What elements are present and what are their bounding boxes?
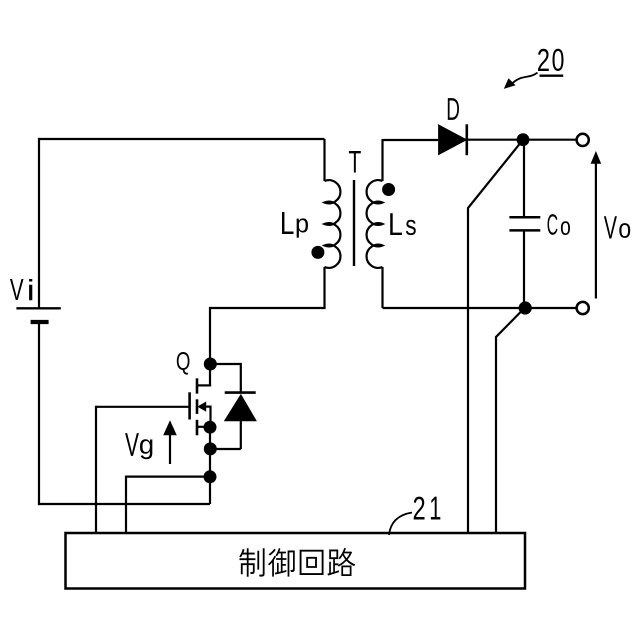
leader 21 curve	[389, 513, 412, 536]
leader 20 curve	[512, 73, 538, 84]
arrow Vg line	[169, 434, 171, 464]
label Lp	[282, 212, 308, 238]
polarity dot Lp	[311, 246, 324, 259]
label 20	[538, 49, 564, 71]
wire Co bottom down	[523, 230, 525, 308]
transistor Q source stub	[197, 426, 210, 428]
transistor Q drain stub	[197, 384, 211, 386]
arrow Vg head	[163, 420, 177, 435]
label Vg	[125, 433, 152, 459]
polarity dot Ls	[382, 183, 395, 196]
node drain	[204, 358, 217, 371]
wire node to positive terminal	[523, 139, 576, 141]
wire left vertical from top rail to battery	[38, 138, 40, 308]
wire feedback from bottom node diagonal	[496, 308, 525, 533]
wire Lp bottom down	[323, 267, 325, 308]
node body return	[204, 442, 217, 455]
wire feedback from top node diagonal	[468, 140, 523, 533]
wire bottom output rail	[383, 307, 577, 309]
kanji gyo of 制御回路	[268, 548, 295, 576]
label T	[349, 151, 361, 173]
wire node down to Co	[523, 140, 525, 218]
kanji ro of 制御回路	[327, 548, 355, 576]
wire battery negative down	[38, 324, 40, 505]
battery Vi positive plate	[16, 307, 60, 309]
transistor Q body arrowhead	[197, 402, 206, 412]
label Vo	[604, 216, 630, 238]
terminal output positive	[577, 134, 589, 146]
inductor Ls winding	[367, 180, 383, 268]
capacitor Co bottom plate	[509, 229, 540, 232]
kanji kai of 制御回路	[300, 550, 324, 575]
wire Ls top to rail	[381, 139, 383, 181]
label Vi	[10, 279, 32, 300]
transistor Q gate bar	[188, 392, 191, 419]
arrow Vo head	[591, 151, 602, 164]
wire drain node to stub	[209, 364, 211, 387]
wire Ls top to diode anode	[383, 139, 439, 141]
label Q	[177, 352, 190, 375]
transistor Q body stub	[204, 407, 211, 427]
label Ls	[390, 213, 416, 235]
transistor Q channel drain segment	[196, 378, 199, 393]
label 21	[414, 497, 441, 520]
wire gate down to control box	[95, 406, 97, 533]
capacitor Co top plate	[509, 216, 540, 219]
terminal output negative	[577, 302, 589, 314]
wire bottom return to MOSFET source	[38, 503, 210, 505]
wire drain vertical	[209, 307, 211, 364]
diode D body	[439, 125, 467, 155]
transistor Q channel body segment	[196, 399, 199, 414]
wire top rail	[39, 138, 325, 140]
control box 21	[66, 533, 526, 589]
wire body diode return	[210, 448, 241, 450]
node source return	[204, 470, 217, 483]
wire gate horizontal	[96, 406, 189, 408]
wire body diode top	[240, 363, 242, 393]
label Co	[548, 214, 571, 235]
inductor Lp winding	[325, 180, 341, 268]
transistor Q channel source segment	[196, 420, 199, 436]
arrow Vo line	[595, 162, 597, 299]
kanji sei of 制御回路	[239, 548, 264, 576]
battery Vi negative plate	[31, 320, 49, 324]
diode D cathode bar	[465, 124, 468, 155]
wire Ls bottom down	[381, 267, 383, 308]
underline 20	[540, 74, 564, 76]
body diode cathode bar	[225, 391, 256, 394]
node bottom output	[519, 301, 532, 314]
leader 20 arrowhead	[504, 78, 516, 89]
wire top rail corner down to Lp	[323, 139, 325, 181]
wire source return down to box	[125, 476, 127, 534]
wire source return horizontal	[126, 476, 210, 478]
wire body diode bottom	[240, 421, 242, 449]
wire Lp bottom horizontal to drain	[210, 307, 326, 309]
body diode triangle	[225, 395, 256, 421]
wire diode cathode to output node	[467, 139, 524, 141]
wire drain node to body diode	[210, 363, 241, 365]
node top output	[517, 133, 530, 146]
transformer T core	[353, 180, 355, 266]
label D	[448, 98, 459, 120]
wire source down	[209, 427, 211, 504]
node source	[204, 421, 217, 434]
